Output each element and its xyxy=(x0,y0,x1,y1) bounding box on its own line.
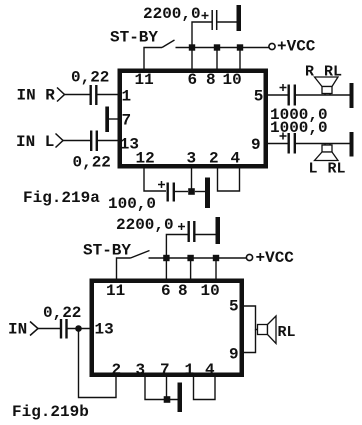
terminal +VCC (Fig.219b) xyxy=(246,254,252,260)
svg-text:RL: RL xyxy=(328,161,346,178)
pin 12 label (U1) xyxy=(136,150,155,168)
pin 9 label (U2) xyxy=(229,346,239,364)
svg-text:IN: IN xyxy=(8,321,27,339)
svg-text:R: R xyxy=(305,64,314,81)
pin 3 label (U2) xyxy=(136,361,146,379)
wire pin9 to speaker (b) xyxy=(244,330,256,353)
capacitor C5 value 1000,0 (R channel out) xyxy=(289,85,295,106)
wire node6 to C7 xyxy=(166,235,188,259)
pin 6 label (U1) xyxy=(188,71,198,89)
svg-text:5: 5 xyxy=(229,298,239,316)
svg-text:7: 7 xyxy=(122,112,132,130)
wire pin6 stub xyxy=(191,48,193,70)
wire pin5 to C5 xyxy=(268,94,288,96)
input IN label (Fig.219b) xyxy=(8,321,27,339)
svg-text:8: 8 xyxy=(178,282,188,300)
svg-text:8: 8 xyxy=(206,71,216,89)
svg-text:11: 11 xyxy=(135,71,154,89)
wire C4 to node pin3 xyxy=(175,191,188,193)
pin 1 label (U2) xyxy=(185,361,195,379)
pin 9 label (U1) xyxy=(251,136,261,154)
C6 polarity + xyxy=(280,133,287,140)
capacitor C6 value 1000,0 (L channel out) xyxy=(289,133,295,154)
capacitor C7 value 2200,0 (Fig.219b) xyxy=(189,221,195,242)
svg-text:1000,0: 1000,0 xyxy=(270,119,328,137)
wire C6 to ground (L out) xyxy=(296,143,350,145)
pin 8 label (U2) xyxy=(178,282,188,300)
label L RL xyxy=(309,161,346,178)
svg-text:9: 9 xyxy=(229,346,239,364)
C5 value label 1000,0 xyxy=(270,106,328,124)
input IN terminal chevron (b) xyxy=(30,322,38,336)
terminal +VCC (Fig.219a) xyxy=(269,43,275,49)
svg-text:0,22: 0,22 xyxy=(71,69,109,87)
wire pin12 to C4 xyxy=(144,166,166,191)
switch SW1 lever xyxy=(162,40,175,48)
wire C5 to ground (R out) xyxy=(296,94,350,96)
svg-text:6: 6 xyxy=(161,282,171,300)
pin 11 label (U2) xyxy=(106,282,125,300)
ground bar (C7) xyxy=(216,217,221,244)
wire pin8 stub (b) xyxy=(190,258,192,279)
svg-text:7: 7 xyxy=(160,361,170,379)
label Fig.219a xyxy=(23,189,100,207)
wire IN L to C3 xyxy=(63,140,90,142)
pin 2 label (U2) xyxy=(112,361,122,379)
switch SW2 lever xyxy=(131,251,150,259)
wire feedback node to pin2 loop xyxy=(79,329,117,398)
wire C1 to ground xyxy=(218,21,237,23)
wire IN R to C2 xyxy=(65,94,90,96)
input IN L label xyxy=(16,133,54,151)
switch ST-BY label xyxy=(110,29,158,47)
svg-text:ST-BY: ST-BY xyxy=(110,29,158,47)
wire IN to C8 xyxy=(38,328,60,330)
pin 5 label (U2) xyxy=(229,298,239,316)
node junction input/feedback (b) xyxy=(75,325,82,332)
node junction pin10 rail xyxy=(237,44,243,50)
pin 1 label (U1) xyxy=(122,88,132,106)
speaker L RL xyxy=(315,144,339,161)
wire C2 to pin1 xyxy=(98,94,119,96)
svg-text:2: 2 xyxy=(209,150,219,168)
wire +VCC rail (Fig.219a) xyxy=(176,47,269,49)
pin 6 label (U2) xyxy=(161,282,171,300)
op-amp IC U2 (power amplifier, Fig.219b) xyxy=(92,281,242,375)
ground bar (C1) xyxy=(237,5,242,31)
label +VCC (Fig.219b) xyxy=(256,249,295,267)
ground bar (pin 3 node) xyxy=(205,178,210,209)
svg-text:6: 6 xyxy=(188,71,198,89)
input IN R terminal chevron xyxy=(57,88,65,102)
input IN R label xyxy=(17,87,56,105)
wire C8 to pin13 (b) xyxy=(68,328,91,330)
pin 11 label (U1) xyxy=(135,71,154,89)
capacitor C3 value 0,22 (IN L) xyxy=(91,131,97,152)
capacitor C8 value 0,22 (Fig.219b) xyxy=(61,319,67,339)
pin 8 label (U1) xyxy=(206,71,216,89)
C1 value label 2200,0 xyxy=(143,5,201,23)
ground bar (pin 7) xyxy=(105,107,109,133)
switch ST-BY label (Fig.219b) xyxy=(83,242,131,260)
svg-text:9: 9 xyxy=(251,136,261,154)
svg-text:0,22: 0,22 xyxy=(73,154,111,172)
speaker R RL xyxy=(315,77,339,95)
wire C7 to ground xyxy=(195,234,216,236)
pin 13 label (U1) xyxy=(120,136,139,154)
speaker RL (Fig.219b) xyxy=(258,316,277,344)
label +VCC (Fig.219a) xyxy=(277,38,316,56)
input IN L terminal chevron xyxy=(56,134,64,148)
pin 7 label (U2) xyxy=(160,361,170,379)
C7 polarity + xyxy=(178,223,185,230)
C8 value label 0,22 xyxy=(43,304,81,322)
svg-text:RL: RL xyxy=(278,324,296,341)
svg-text:13: 13 xyxy=(95,321,114,339)
svg-text:11: 11 xyxy=(106,282,125,300)
op-amp IC U1 (power amplifier, Fig.219a) xyxy=(120,71,266,167)
C4 polarity + xyxy=(158,181,165,188)
node junction pin7/ground (b) xyxy=(164,396,171,403)
pin 10 label (U1) xyxy=(223,71,242,89)
svg-text:Fig.219b: Fig.219b xyxy=(12,403,89,421)
wire C3 to pin13 xyxy=(98,140,118,142)
svg-text:RL: RL xyxy=(324,64,342,81)
svg-text:+VCC: +VCC xyxy=(277,38,316,56)
svg-text:1: 1 xyxy=(122,88,132,106)
wire pin7 to ground xyxy=(109,118,119,120)
wire pin3 stub down xyxy=(191,166,193,192)
C1 polarity + xyxy=(202,12,209,19)
pin 10 label (U2) xyxy=(201,282,220,300)
wire pin10 stub xyxy=(239,48,241,70)
pin 7 label (U1) xyxy=(122,112,132,130)
wire pins 2 and 4 loop xyxy=(218,166,240,191)
svg-text:L: L xyxy=(309,161,318,178)
svg-text:3: 3 xyxy=(187,150,197,168)
svg-text:100,0: 100,0 xyxy=(108,195,156,213)
svg-text:2200,0: 2200,0 xyxy=(116,216,174,234)
wire +VCC rail (Fig.219b) xyxy=(149,257,247,259)
C3 value label 0,22 xyxy=(73,154,111,172)
svg-text:+VCC: +VCC xyxy=(256,249,295,267)
capacitor C2 value 0,22 (IN R) xyxy=(91,85,97,105)
wire pin9 to C6 xyxy=(268,143,288,145)
C5 polarity + xyxy=(280,84,287,91)
label Fig.219b xyxy=(12,403,89,421)
svg-text:1: 1 xyxy=(185,361,195,379)
node junction pin6 rail xyxy=(189,44,195,50)
wire pin6 stub (b) xyxy=(165,258,167,279)
C2 value label 0,22 xyxy=(71,69,109,87)
pin 13 label (U2) xyxy=(95,321,114,339)
svg-text:12: 12 xyxy=(136,150,155,168)
label R RL xyxy=(305,64,342,81)
capacitor C4 value 100,0 xyxy=(168,183,174,202)
svg-text:0,22: 0,22 xyxy=(43,304,81,322)
wire pin10 stub (b) xyxy=(215,258,217,279)
node junction pin3/C4/ground xyxy=(188,188,195,195)
wire pin8 stub xyxy=(216,48,218,70)
pin 2 label (U1) xyxy=(209,150,219,168)
label RL (Fig.219b) xyxy=(278,324,296,341)
node junction pin8 rail xyxy=(214,44,220,50)
C4 value label 100,0 xyxy=(108,195,156,213)
node junction pin6 rail (b) xyxy=(163,255,169,261)
svg-text:5: 5 xyxy=(254,88,264,106)
ground bar (L out) xyxy=(350,132,354,157)
pin 5 label (U1) xyxy=(254,88,264,106)
wire pin3 to ground node (b) xyxy=(145,377,178,400)
C7 value label 2200,0 xyxy=(116,216,174,234)
wire pin7 stub down (b) xyxy=(166,377,168,400)
C6 value label 1000,0 xyxy=(270,119,328,137)
svg-text:ST-BY: ST-BY xyxy=(83,242,131,260)
pin 3 label (U1) xyxy=(187,150,197,168)
svg-text:4: 4 xyxy=(205,361,215,379)
svg-text:2200,0: 2200,0 xyxy=(143,5,201,23)
svg-text:IN L: IN L xyxy=(16,133,54,151)
svg-text:Fig.219a: Fig.219a xyxy=(23,189,100,207)
capacitor C1 value 2200,0 xyxy=(212,10,217,30)
wire node6 to C1 xyxy=(192,22,212,48)
svg-text:10: 10 xyxy=(201,282,220,300)
wire pin11 to switch (Fig.219b) xyxy=(117,258,131,279)
pin 4 label (U1) xyxy=(231,150,241,168)
wire node to ground (Fig.219a bottom) xyxy=(195,191,205,193)
wire pin11 to switch xyxy=(144,48,162,70)
node junction pin8 rail (b) xyxy=(187,255,193,261)
wire pins 1 and 4 loop (b) xyxy=(194,377,216,400)
svg-text:4: 4 xyxy=(231,150,241,168)
wire pin5 to speaker (b) xyxy=(244,306,258,330)
svg-text:10: 10 xyxy=(223,71,242,89)
svg-text:2: 2 xyxy=(112,361,122,379)
node junction pin10 rail (b) xyxy=(213,255,219,261)
ground bar (R out) xyxy=(350,83,354,108)
pin 4 label (U2) xyxy=(205,361,215,379)
ground bar (Fig.219b) xyxy=(178,383,183,413)
svg-text:IN R: IN R xyxy=(17,87,56,105)
svg-text:3: 3 xyxy=(136,361,146,379)
